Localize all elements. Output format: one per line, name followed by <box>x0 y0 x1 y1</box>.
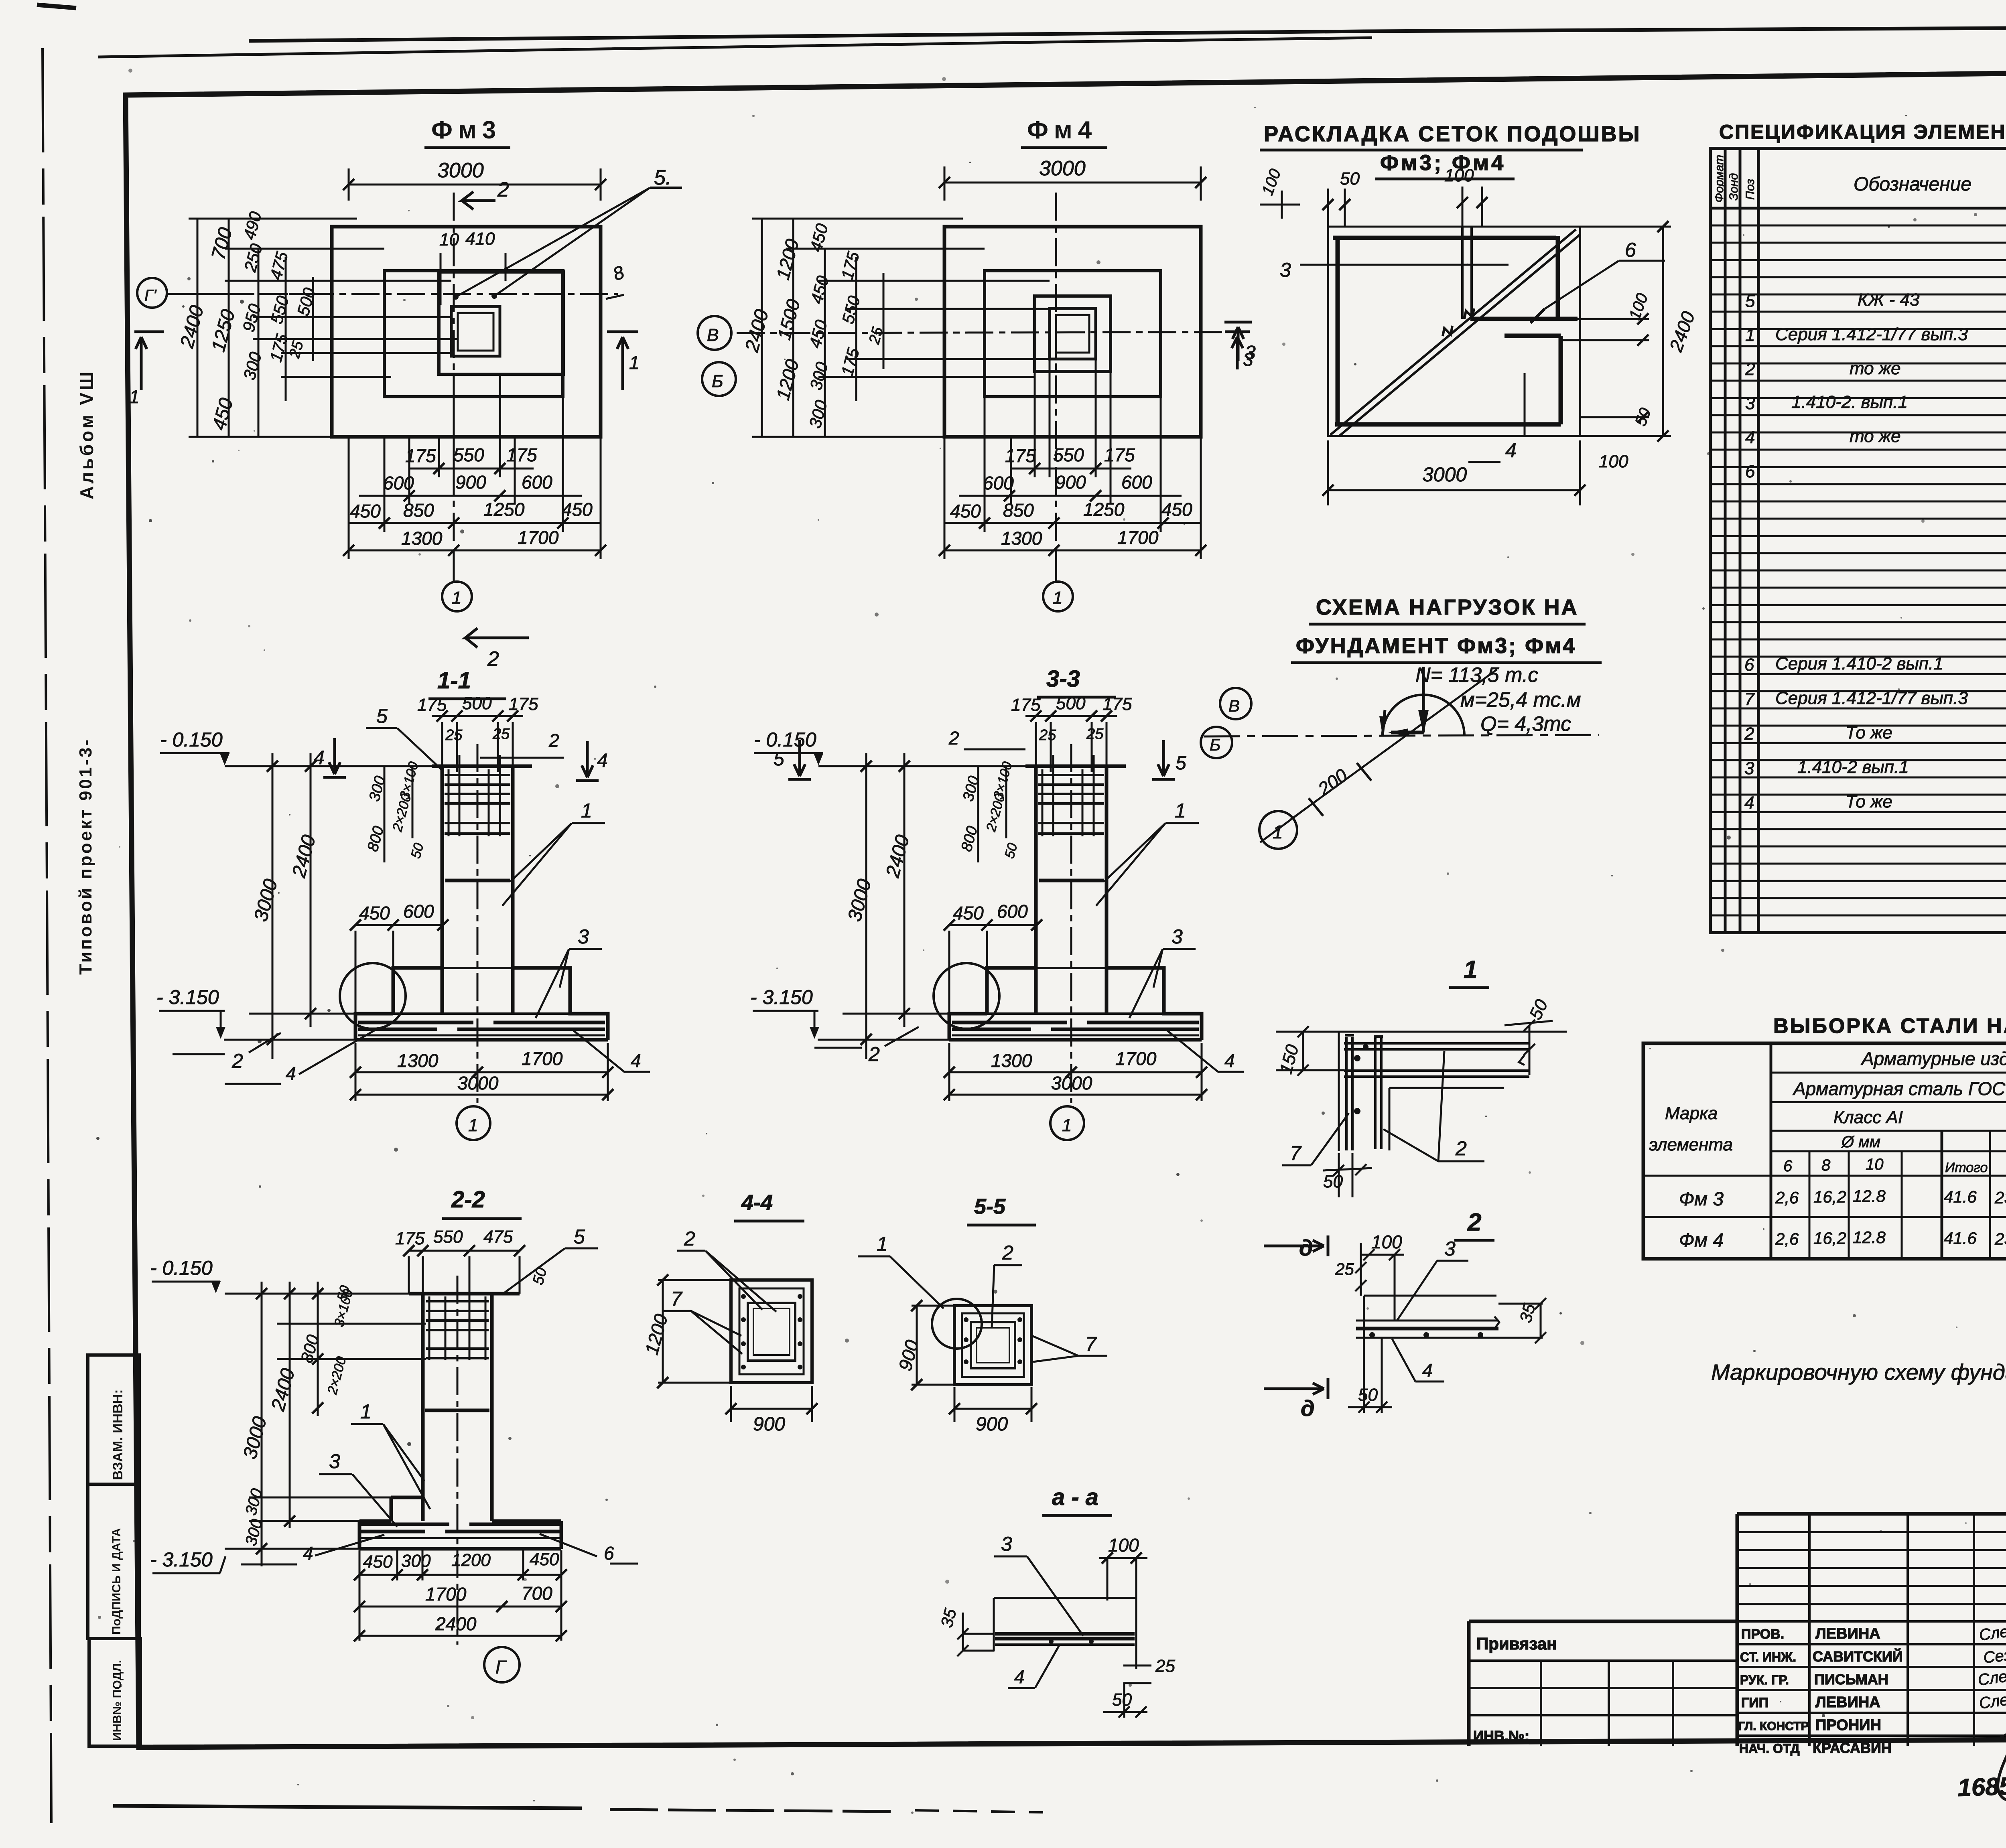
M arrow tip <box>1383 710 1385 735</box>
svg-text:Фм4: Фм4 <box>1027 116 1097 144</box>
svg-text:2,6: 2,6 <box>1775 1229 1799 1248</box>
bottom dim 2400 <box>359 1635 561 1637</box>
section circle G' <box>137 278 167 308</box>
stamp box bottom <box>89 1639 140 1746</box>
svg-text:5: 5 <box>1745 291 1755 311</box>
center axis line <box>457 1276 459 1645</box>
left dim stack lines <box>197 219 313 437</box>
svg-text:100: 100 <box>1444 166 1474 185</box>
svg-text:КРАСАВИН: КРАСАВИН <box>1813 1740 1892 1756</box>
svg-text:1250: 1250 <box>1083 499 1125 520</box>
right dim 2400 <box>1662 227 1664 436</box>
svg-text:КЖ - 43: КЖ - 43 <box>1858 290 1920 310</box>
svg-text:175: 175 <box>395 1229 425 1248</box>
sub verticals <box>1809 1131 2006 1259</box>
svg-text:ПРОНИН: ПРОНИН <box>1815 1717 1881 1734</box>
svg-text:1700: 1700 <box>425 1584 467 1605</box>
sheet outline thin square <box>1328 227 1580 436</box>
svg-text:410: 410 <box>465 229 495 249</box>
outer frame <box>1643 1043 2006 1259</box>
svg-text:16,2: 16,2 <box>1813 1187 1846 1206</box>
svg-text:Фм3; Фм4: Фм3; Фм4 <box>1380 151 1506 175</box>
svg-text:4: 4 <box>1505 439 1517 462</box>
svg-text:2: 2 <box>487 647 499 671</box>
top sheet edge line 1 <box>249 25 2006 41</box>
column rebar cage <box>429 1296 485 1360</box>
svg-text:В: В <box>1228 696 1240 715</box>
svg-text:7: 7 <box>1290 1142 1302 1164</box>
svg-text:5: 5 <box>376 705 388 727</box>
stamp box middle <box>88 1484 139 1639</box>
svg-text:7: 7 <box>1085 1333 1097 1355</box>
svg-text:Б: Б <box>1210 735 1220 754</box>
svg-text:Г': Г' <box>144 287 157 304</box>
svg-text:САВИТСКИЙ: САВИТСКИЙ <box>1813 1648 1903 1665</box>
svg-text:ПоДПИСЬ И ДАТА: ПоДПИСЬ И ДАТА <box>110 1528 123 1635</box>
outer footing rect <box>944 227 1201 437</box>
Q arrow <box>1391 731 1423 734</box>
pedestal squares <box>954 1306 1031 1385</box>
svg-text:850: 850 <box>1003 500 1034 521</box>
bottom witness verticals <box>349 374 601 559</box>
rebar dots <box>964 1317 968 1322</box>
svg-text:600: 600 <box>522 472 552 493</box>
svg-text:3: 3 <box>1744 759 1754 778</box>
svg-text:4: 4 <box>1745 428 1755 447</box>
mesh thick right lower bar <box>1559 336 1563 424</box>
svg-text:2: 2 <box>548 730 559 751</box>
svg-text:СТ. ИНЖ.: СТ. ИНЖ. <box>1740 1650 1796 1664</box>
svg-text:4: 4 <box>597 750 608 771</box>
svg-text:3: 3 <box>329 1450 340 1473</box>
svg-text:Формат: Формат <box>1713 155 1726 203</box>
svg-text:Серия 1.412-1/77 вып.3: Серия 1.412-1/77 вып.3 <box>1775 325 1968 344</box>
left horizontal witness lines <box>189 219 458 437</box>
svg-text:Фм3: Фм3 <box>431 116 501 144</box>
svg-text:2: 2 <box>1745 359 1755 379</box>
svg-text:То же: То же <box>1846 792 1892 811</box>
svg-text:5: 5 <box>774 749 784 770</box>
svg-text:Фм 3: Фм 3 <box>1679 1189 1724 1210</box>
svg-text:Класс АІ: Класс АІ <box>1833 1108 1903 1127</box>
outer footing rect <box>332 227 601 437</box>
privyazan table <box>1469 1621 1737 1746</box>
footing outline <box>359 1497 561 1549</box>
header horizontals <box>1643 1073 2006 1176</box>
dim 900 left <box>916 1306 918 1385</box>
DETAIL-2 <box>1264 1209 1546 1421</box>
svg-text:175: 175 <box>1005 445 1036 466</box>
svg-text:1.410-2. вып.1: 1.410-2. вып.1 <box>1791 392 1908 412</box>
mesh thick top bar <box>1333 236 1556 240</box>
RASKLADKA <box>1224 122 1699 505</box>
axis circle G <box>484 1647 520 1682</box>
SECTION-5-5 <box>858 1195 1107 1435</box>
N arrow <box>1422 667 1425 732</box>
svg-text:- 0.150: - 0.150 <box>150 1257 213 1279</box>
detail circle <box>932 1299 982 1349</box>
svg-text:175: 175 <box>1104 444 1135 465</box>
svg-text:900: 900 <box>455 472 486 493</box>
svg-text:12.8: 12.8 <box>1853 1187 1886 1205</box>
svg-text:2: 2 <box>684 1227 695 1250</box>
SECTION-2-2 <box>150 1187 638 1682</box>
svg-text:ИНВ.№:: ИНВ.№: <box>1473 1728 1529 1744</box>
diagonal break marks <box>1443 308 1474 336</box>
svg-text:6: 6 <box>1744 655 1754 675</box>
svg-text:ВЫБОРКА СТАЛИ НА ОДИН ЭЛЕМЕНТ,: ВЫБОРКА СТАЛИ НА ОДИН ЭЛЕМЕНТ, КГ <box>1773 1014 2006 1038</box>
rebar hook dots <box>1354 1055 1360 1061</box>
svg-text:7: 7 <box>1744 690 1755 709</box>
svg-text:4: 4 <box>1744 793 1754 813</box>
central signature table <box>1737 1514 2006 1746</box>
svg-text:ГЛ. КОНСТР: ГЛ. КОНСТР <box>1738 1720 1809 1733</box>
pedestal squares <box>731 1280 812 1383</box>
section arrow K2 bottom <box>465 628 529 647</box>
svg-text:600: 600 <box>383 473 414 493</box>
svg-text:1250: 1250 <box>483 499 525 520</box>
svg-text:1: 1 <box>360 1400 372 1423</box>
svg-text:175: 175 <box>506 444 537 465</box>
svg-text:Привязан: Привязан <box>1476 1634 1557 1653</box>
svg-text:Б: Б <box>712 371 723 391</box>
column glass double square <box>1050 308 1096 359</box>
svg-text:2: 2 <box>948 728 959 749</box>
axis circle 1 <box>1259 811 1297 849</box>
splice line <box>425 1409 489 1412</box>
svg-text:16,2: 16,2 <box>1813 1229 1846 1248</box>
svg-text:1: 1 <box>877 1233 888 1255</box>
svg-text:1: 1 <box>129 386 140 407</box>
svg-text:550: 550 <box>433 1227 463 1247</box>
svg-text:2: 2 <box>868 1043 880 1065</box>
svg-text:Арматурные изделия: Арматурные изделия <box>1860 1048 2006 1069</box>
vertical sheet gap pair <box>1462 227 1472 319</box>
big signature flourish <box>1998 1721 2006 1800</box>
svg-text:23,2: 23,2 <box>1994 1188 2006 1207</box>
axis circle 1 <box>1055 550 1057 582</box>
left dim 3000 <box>261 1282 263 1566</box>
svg-text:элемента: элемента <box>1649 1135 1733 1154</box>
svg-text:ЛЕВИНА: ЛЕВИНА <box>1815 1625 1880 1642</box>
top dims 175 550 475 <box>409 1250 520 1252</box>
svg-text:3: 3 <box>1001 1533 1012 1555</box>
svg-text:300: 300 <box>401 1551 431 1571</box>
leader 4 vertical <box>1524 373 1526 436</box>
SECTION-4-4 <box>641 1191 818 1435</box>
svg-text:а - а: а - а <box>1052 1484 1098 1510</box>
svg-text:- 3.150: - 3.150 <box>150 1548 213 1571</box>
LEFT-MARGIN <box>76 369 140 1746</box>
pedestal rect <box>439 272 563 374</box>
svg-text:то же: то же <box>1850 359 1901 378</box>
SXEMA-NAGRUZOK <box>1201 595 1602 849</box>
svg-text:50: 50 <box>1340 169 1360 189</box>
header bottom line <box>1710 207 2006 210</box>
svg-text:Обозначение: Обозначение <box>1854 174 1971 195</box>
svg-text:То же: То же <box>1846 723 1892 742</box>
svg-text:3000: 3000 <box>1422 463 1467 486</box>
svg-text:25: 25 <box>1155 1656 1175 1676</box>
svg-text:РУК. ГР.: РУК. ГР. <box>1740 1673 1789 1687</box>
svg-text:23,2: 23,2 <box>1994 1229 2006 1248</box>
svg-text:д: д <box>1301 1396 1315 1421</box>
plate geometry <box>1364 1296 1496 1340</box>
svg-text:3: 3 <box>1745 394 1755 413</box>
svg-text:1200: 1200 <box>451 1550 491 1570</box>
svg-text:ПРОВ.: ПРОВ. <box>1741 1627 1784 1642</box>
mesh thick bottom bar <box>1335 422 1561 427</box>
svg-text:Марка: Марка <box>1665 1104 1718 1123</box>
mesh band <box>995 1634 1135 1639</box>
svg-text:Ø мм: Ø мм <box>1841 1133 1880 1151</box>
svg-text:100: 100 <box>1371 1231 1402 1252</box>
svg-text:ИНВ№ ПОДЛ.: ИНВ№ ПОДЛ. <box>111 1660 124 1741</box>
top-left corner mark <box>37 5 76 8</box>
svg-text:600: 600 <box>1121 472 1152 493</box>
pedestal rect <box>1035 296 1111 371</box>
svg-text:СПЕЦИФИКАЦИЯ ЭЛЕМЕНТОВ МОНОЛИТ: СПЕЦИФИКАЦИЯ ЭЛЕМЕНТОВ МОНОЛИТНОЙ КОНСТР… <box>1719 120 2006 143</box>
svg-text:2: 2 <box>1455 1137 1467 1160</box>
svg-text:1: 1 <box>629 352 640 373</box>
svg-text:2: 2 <box>497 178 509 201</box>
svg-text:Зонд: Зонд <box>1727 173 1740 201</box>
slab mesh <box>361 1523 560 1526</box>
svg-text:450: 450 <box>562 499 593 520</box>
svg-text:5-5: 5-5 <box>974 1195 1006 1219</box>
svg-text:900: 900 <box>976 1414 1008 1435</box>
svg-text:10: 10 <box>439 230 459 250</box>
mark 3 left <box>1224 322 1252 361</box>
svg-text:1300: 1300 <box>1001 528 1042 549</box>
svg-text:д: д <box>1299 1235 1313 1260</box>
svg-text:1.410-2 вып.1: 1.410-2 вып.1 <box>1797 757 1909 777</box>
cut mark 5 left <box>788 740 811 779</box>
svg-text:8: 8 <box>1821 1156 1831 1174</box>
svg-text:1: 1 <box>1053 588 1062 608</box>
svg-text:16856-01: 16856-01 <box>1957 1771 2006 1802</box>
rebar dots <box>741 1294 746 1299</box>
svg-text:РАСКЛАДКА СЕТОК ПОДОШВЫ: РАСКЛАДКА СЕТОК ПОДОШВЫ <box>1264 122 1641 146</box>
svg-text:700: 700 <box>522 1583 552 1604</box>
svg-text:3: 3 <box>1444 1237 1456 1260</box>
long witness lines left <box>225 1294 426 1549</box>
svg-text:1300: 1300 <box>401 528 443 549</box>
axis dash line <box>1204 735 1599 736</box>
svg-text:4: 4 <box>286 1063 296 1084</box>
svg-text:В: В <box>707 325 719 345</box>
svg-text:Альбом VШ: Альбом VШ <box>76 369 97 499</box>
TITLE-BLOCK <box>1469 1514 2006 1805</box>
dim 900 bottom <box>731 1408 812 1410</box>
bottom witness verticals <box>944 359 1201 559</box>
SECTION-3-3 <box>750 666 1244 1140</box>
svg-text:ВЗАМ. ИНВН:: ВЗАМ. ИНВН: <box>110 1389 126 1480</box>
second mesh contour <box>1389 1088 1504 1150</box>
svg-text:СХЕМА НАГРУЗОК НА: СХЕМА НАГРУЗОК НА <box>1316 595 1579 619</box>
stamp box top <box>88 1355 139 1484</box>
svg-text:ФУНДАМЕНТ Фм3; Фм4: ФУНДАМЕНТ Фм3; Фм4 <box>1296 634 1576 658</box>
svg-text:50: 50 <box>1358 1385 1378 1405</box>
svg-text:Поз: Поз <box>1744 179 1757 200</box>
semicircle moment <box>1383 695 1464 736</box>
svg-text:5: 5 <box>574 1225 585 1248</box>
svg-text:ЛЕВИНА: ЛЕВИНА <box>1815 1694 1880 1711</box>
vertical bar pair left <box>1346 1037 1352 1150</box>
svg-text:41.6: 41.6 <box>1944 1187 1977 1206</box>
centerlines <box>169 293 618 295</box>
mesh joint bar lower <box>1504 334 1561 338</box>
svg-text:6: 6 <box>1625 239 1636 261</box>
svg-text:4: 4 <box>314 747 325 769</box>
svg-text:5: 5 <box>1176 753 1186 774</box>
svg-text:450: 450 <box>950 501 981 521</box>
svg-text:4: 4 <box>1422 1360 1433 1381</box>
svg-text:450: 450 <box>363 1552 393 1572</box>
svg-text:3000: 3000 <box>437 159 484 182</box>
svg-text:Q= 4,3тс: Q= 4,3тс <box>1480 712 1571 736</box>
break wave <box>1519 1055 1525 1065</box>
axis circle 1 <box>453 550 455 582</box>
svg-text:1700: 1700 <box>1117 527 1159 548</box>
section arrow K2 top <box>462 192 495 209</box>
slab outline <box>994 1598 1136 1651</box>
svg-text:ПИСЬМАН: ПИСЬМАН <box>1814 1671 1888 1688</box>
middle step rect <box>384 271 563 397</box>
svg-text:2400: 2400 <box>435 1613 477 1634</box>
cut mark 4 right <box>576 741 599 781</box>
svg-text:Итого: Итого <box>1945 1160 1988 1175</box>
table outer frame <box>1710 148 2006 933</box>
svg-text:3: 3 <box>1280 259 1291 281</box>
svg-text:600: 600 <box>983 473 1014 493</box>
left sheet edge <box>43 48 51 1823</box>
dim 1200 left <box>662 1280 664 1383</box>
svg-text:450: 450 <box>530 1550 559 1569</box>
svg-text:41.6: 41.6 <box>1944 1229 1977 1248</box>
top outline <box>1339 1032 1567 1151</box>
section mark 1 right <box>607 332 638 390</box>
svg-text:ГИП: ГИП <box>1741 1695 1768 1710</box>
section mark 3 right <box>1225 332 1250 369</box>
svg-text:900: 900 <box>1055 472 1086 493</box>
diagonal double line <box>1330 229 1580 436</box>
svg-text:10: 10 <box>1866 1156 1884 1173</box>
svg-text:175: 175 <box>405 445 436 466</box>
diagonal axis line <box>1291 669 1497 820</box>
svg-text:5.: 5. <box>654 166 671 189</box>
svg-text:850: 850 <box>403 500 434 521</box>
middle step rect <box>985 271 1161 397</box>
cut mark 4 left <box>323 738 346 777</box>
svg-text:м=25,4 тс.м: м=25,4 тс.м <box>1460 688 1581 712</box>
svg-text:3000: 3000 <box>1039 157 1086 180</box>
svg-text:1-1: 1-1 <box>437 667 471 694</box>
mesh thick left bar <box>1336 236 1340 426</box>
main verticals <box>1771 1043 2006 1259</box>
svg-text:1: 1 <box>452 588 461 608</box>
svg-text:6: 6 <box>1745 462 1755 481</box>
axis circles V B <box>1220 688 1251 719</box>
svg-text:Маркировочную схему фундамент: Маркировочную схему фундаментов см. КЖ-5… <box>1711 1359 2006 1385</box>
SECTION-A-A <box>937 1484 1175 1718</box>
svg-text:900: 900 <box>753 1414 785 1435</box>
svg-text:2: 2 <box>1467 1209 1481 1236</box>
svg-text:4: 4 <box>1014 1666 1025 1687</box>
svg-text:475: 475 <box>483 1227 513 1247</box>
section mark 1 left <box>134 332 164 390</box>
svg-text:2,6: 2,6 <box>1775 1188 1799 1207</box>
svg-text:Серия 1.412-1/77 вып.3: Серия 1.412-1/77 вып.3 <box>1775 688 1968 708</box>
svg-text:25: 25 <box>1335 1260 1354 1278</box>
svg-text:4-4: 4-4 <box>741 1191 773 1215</box>
svg-text:12.8: 12.8 <box>1853 1228 1886 1247</box>
top sheet edge line 2 <box>98 38 1372 57</box>
table row lines <box>1710 208 2006 933</box>
left horizontal witness lines <box>752 219 1056 437</box>
svg-text:то же: то же <box>1850 426 1901 446</box>
column shaft <box>409 1294 520 1521</box>
bottom dims 1700 700 <box>359 1606 561 1608</box>
svg-text:4: 4 <box>303 1543 313 1564</box>
left dim stack lines <box>762 219 883 437</box>
bottom sheet edge <box>113 1806 582 1808</box>
svg-text:Сез: Сез <box>1982 1646 2006 1667</box>
svg-text:Типовой проект 901-3-: Типовой проект 901-3- <box>76 738 95 975</box>
column glass double square <box>451 306 500 356</box>
svg-text:7: 7 <box>671 1288 683 1310</box>
vertical bar pair right <box>1375 1038 1381 1149</box>
horizontal bar pair 1 <box>1344 1043 1529 1049</box>
svg-text:450: 450 <box>1161 499 1192 520</box>
svg-text:450: 450 <box>350 501 381 521</box>
svg-text:100: 100 <box>1599 452 1628 471</box>
svg-text:3: 3 <box>1245 342 1256 363</box>
mesh thick right upper bar <box>1556 236 1560 319</box>
svg-text:Фм 4: Фм 4 <box>1679 1230 1724 1251</box>
svg-text:1: 1 <box>1464 956 1477 984</box>
svg-text:2: 2 <box>231 1050 243 1072</box>
svg-text:550: 550 <box>453 444 484 465</box>
horizontal bar pair 2 <box>1344 1071 1529 1077</box>
svg-text:550: 550 <box>1053 444 1084 465</box>
svg-text:2: 2 <box>1744 724 1754 744</box>
svg-text:2: 2 <box>1002 1241 1013 1264</box>
svg-text:Г: Г <box>495 1657 507 1678</box>
STEEL-TABLE <box>1643 1014 2006 1385</box>
column lines <box>1725 148 2006 933</box>
svg-text:Арматурная сталь ГОСТ 5781-: Арматурная сталь ГОСТ 5781-75 <box>1792 1078 2006 1099</box>
svg-text:6: 6 <box>1783 1157 1793 1175</box>
centerlines <box>737 332 1228 333</box>
left dim 2400 <box>289 1282 291 1528</box>
svg-text:НАЧ. ОТД: НАЧ. ОТД <box>1739 1741 1800 1756</box>
left dim 800 <box>317 1282 319 1416</box>
PLAN-FM4 <box>698 116 1253 611</box>
bottom dims 450 300 1200 450 <box>359 1574 561 1576</box>
svg-text:Серия 1.410-2 вып.1: Серия 1.410-2 вып.1 <box>1775 654 1943 673</box>
svg-text:1: 1 <box>1745 325 1755 345</box>
dim 900 bottom <box>954 1408 1031 1410</box>
DETAIL-1 <box>1276 956 1567 1197</box>
cut mark 5 right <box>1152 740 1175 779</box>
mesh joint bar upper <box>1470 317 1578 321</box>
axis circles V B <box>698 316 731 350</box>
PLAN-FM3 <box>129 116 682 671</box>
svg-text:2-2: 2-2 <box>451 1187 485 1213</box>
svg-text:1: 1 <box>1273 822 1283 842</box>
svg-text:6: 6 <box>604 1543 614 1564</box>
